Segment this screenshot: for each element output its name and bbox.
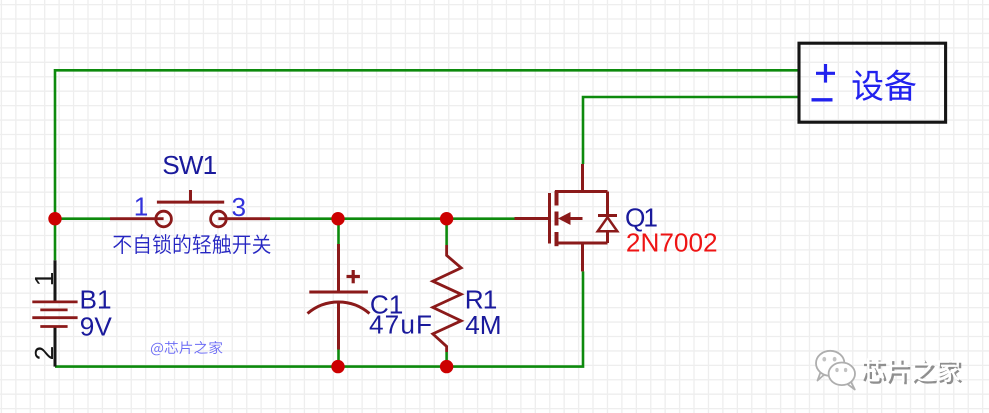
svg-text:2N7002: 2N7002 — [626, 228, 718, 258]
svg-text:1: 1 — [134, 192, 149, 222]
svg-text:B1: B1 — [80, 284, 112, 314]
svg-text:3: 3 — [232, 192, 247, 222]
svg-text:9V: 9V — [80, 311, 113, 341]
svg-text:SW1: SW1 — [162, 150, 216, 180]
svg-text:1: 1 — [29, 272, 59, 287]
svg-text:4M: 4M — [465, 310, 501, 340]
svg-text:2: 2 — [29, 346, 59, 361]
svg-text:47uF: 47uF — [369, 310, 433, 340]
